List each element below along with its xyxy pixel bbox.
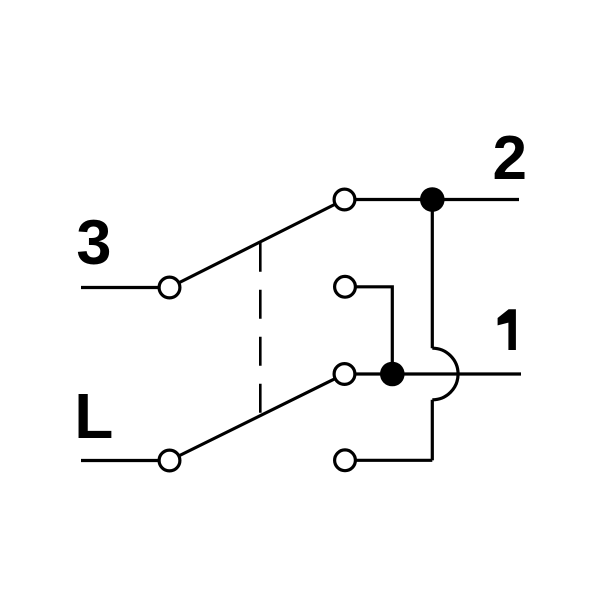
wire hop arc over line 1: [432, 348, 458, 400]
terminal B middle (open circle): [335, 276, 356, 297]
terminal D bottom (open circle): [335, 450, 356, 471]
wire vertical below arc: [431, 400, 434, 461]
terminal L (open circle): [159, 450, 180, 471]
wire vertical from junction J2: [431, 200, 434, 349]
wire line 2: [345, 198, 520, 201]
wire switch-L lever: [170, 374, 345, 461]
svg-text:3: 3: [76, 208, 111, 278]
terminal A top (open circle): [334, 189, 355, 210]
wire lead L: [81, 459, 158, 462]
dashed coupling line: [259, 243, 262, 413]
wire elbow to terminal D: [345, 459, 432, 462]
wire line 1: [345, 372, 522, 375]
junction J2 (filled dot on line 2): [420, 187, 445, 212]
terminal 3 (open circle): [159, 277, 180, 298]
wire switch-3 lever: [170, 200, 345, 288]
wire elbow from terminal B to junction J1: [345, 287, 392, 374]
junction J1 (filled dot on line 1): [380, 362, 405, 387]
terminal C (open circle): [334, 364, 355, 385]
svg-text:L: L: [74, 380, 113, 452]
svg-text:2: 2: [493, 124, 527, 193]
wire lead 3: [81, 286, 158, 289]
label 1: [498, 309, 516, 350]
